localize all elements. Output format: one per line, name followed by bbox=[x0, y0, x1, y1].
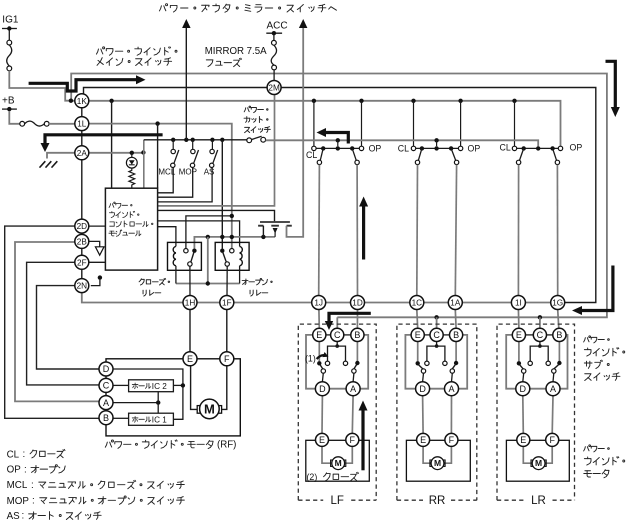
svg-text:+B: +B bbox=[2, 96, 15, 107]
wire C to hall IC2 bbox=[113, 384, 129, 386]
wire close relay to pin bbox=[189, 266, 191, 295]
coil return bus y283.5 bbox=[176, 283, 240, 285]
svg-text:M: M bbox=[204, 401, 215, 416]
svg-text:E: E bbox=[420, 435, 426, 445]
wire 1A to RR B bbox=[454, 310, 457, 329]
node MCL bbox=[171, 138, 175, 142]
svg-text:1H: 1H bbox=[185, 299, 196, 308]
flow arrow into 1G bbox=[582, 266, 613, 311]
RR B contact bbox=[455, 342, 457, 361]
wire 2D-2B bbox=[81, 233, 83, 234]
svg-text:IC 2: IC 2 bbox=[152, 382, 167, 391]
transistor Q1 (p-ch MOSFET) gate bar bbox=[260, 221, 290, 223]
node 1L rail end bbox=[230, 235, 234, 239]
wire 2F-2N bbox=[81, 269, 83, 278]
LR sub-switch frame bbox=[506, 335, 567, 389]
svg-text:RR: RR bbox=[429, 495, 446, 507]
connector pin 1H bbox=[183, 296, 197, 310]
wire module to relay1 coil bbox=[158, 227, 176, 247]
svg-text:F: F bbox=[549, 435, 555, 445]
ACC terminal bbox=[266, 32, 282, 34]
motor pin B bbox=[99, 411, 113, 425]
wire switch bus y139.8 bbox=[144, 139, 247, 141]
wire LF armature OP to 1D bbox=[356, 165, 358, 296]
wire bus140 to relay2 NO contact bbox=[221, 140, 223, 249]
RR pin D to motor bbox=[422, 396, 425, 434]
svg-text:A: A bbox=[448, 384, 454, 394]
wire B to hall IC1 bbox=[113, 417, 129, 419]
svg-text:E: E bbox=[316, 330, 322, 340]
connector pin 2D bbox=[75, 219, 89, 233]
+B terminal dot bbox=[7, 107, 11, 111]
wire MOP to module bbox=[158, 168, 193, 198]
switch AS bbox=[210, 149, 214, 153]
wire 2B to motor pin A (left bus) bbox=[15, 242, 99, 401]
wire module to relay1 NC contact bbox=[186, 216, 232, 249]
LF E contact bbox=[318, 342, 320, 362]
svg-text:MCL: MCL bbox=[7, 480, 28, 491]
wire 1L output bus to relay NC contacts bbox=[89, 124, 232, 249]
svg-text:M: M bbox=[434, 458, 441, 468]
LF pin A to motor bbox=[351, 396, 354, 434]
svg-text::: : bbox=[24, 464, 27, 475]
svg-text:F: F bbox=[224, 354, 230, 364]
RR motor leads bbox=[423, 446, 430, 463]
wire IC supply vertical bbox=[157, 392, 159, 414]
svg-text:E: E bbox=[187, 354, 193, 364]
connector pin 1L bbox=[75, 117, 89, 131]
wire 1G to LR B bbox=[558, 310, 559, 329]
close relay contacts bbox=[184, 249, 188, 253]
open relay coil bbox=[240, 246, 243, 265]
label close relay bbox=[139, 278, 170, 285]
LR armatures bbox=[520, 365, 524, 369]
svg-text:2B: 2B bbox=[77, 237, 88, 246]
svg-text:CL: CL bbox=[306, 150, 317, 160]
dashed box LR bbox=[497, 324, 575, 500]
node CL1 feed bbox=[312, 99, 316, 103]
svg-text:2A: 2A bbox=[77, 149, 88, 158]
wire 1F to motor F bbox=[226, 310, 228, 352]
svg-text:OP: OP bbox=[7, 465, 22, 476]
connector pin 2N bbox=[75, 279, 89, 293]
LR pin D to motor bbox=[522, 396, 525, 434]
svg-text:MOP: MOP bbox=[7, 496, 30, 507]
svg-text:F: F bbox=[449, 435, 455, 445]
svg-text:F: F bbox=[350, 435, 356, 445]
wire 2F to motor pin C (left bus) bbox=[27, 262, 99, 385]
wire ACC loop bus (top y73.5, right side, C-pin feed y317.3) bbox=[71, 74, 607, 318]
svg-text:LF: LF bbox=[330, 495, 343, 507]
IG1 terminal dot bbox=[7, 26, 11, 30]
node MOP bbox=[191, 138, 195, 142]
svg-text:AS: AS bbox=[204, 167, 215, 176]
node CL3 feed bbox=[512, 99, 516, 103]
wire 1K output bus y100.8 bbox=[71, 101, 561, 146]
node group2 center feed bbox=[434, 138, 438, 142]
node OP2 feed bbox=[458, 99, 462, 103]
node OP1 feed bbox=[359, 99, 363, 103]
node module switch-bus feed bbox=[141, 150, 145, 154]
svg-text:B: B bbox=[453, 330, 459, 340]
ground bbox=[40, 161, 46, 167]
open relay contacts bbox=[230, 249, 234, 253]
label to power outer mirror switch bbox=[159, 4, 336, 13]
svg-text:OP: OP bbox=[570, 143, 583, 153]
LR E contact bbox=[518, 342, 520, 362]
LF armatures bbox=[320, 365, 323, 369]
svg-text:C: C bbox=[103, 381, 110, 391]
main switch rocker LR bbox=[517, 147, 559, 149]
node between-relay link top bbox=[206, 235, 210, 239]
connector pin 1G bbox=[551, 296, 565, 310]
wire to power outer mirror switch (up arrow) bbox=[185, 27, 187, 140]
svg-text:IC 1: IC 1 bbox=[152, 415, 167, 424]
LF motor leads bbox=[322, 446, 331, 463]
svg-text:OP: OP bbox=[369, 143, 382, 153]
wire 1H to motor E bbox=[189, 310, 191, 352]
+B terminal bar bbox=[2, 108, 17, 110]
LF B contact bbox=[356, 342, 358, 361]
RR pins bbox=[411, 328, 424, 341]
svg-text:A: A bbox=[103, 398, 109, 408]
wire IG1 to node at 1K bbox=[9, 71, 71, 101]
open relay box bbox=[215, 242, 249, 270]
svg-text:MIRROR 7.5A: MIRROR 7.5A bbox=[205, 46, 267, 57]
wire 2B-2F bbox=[81, 248, 83, 255]
node 1L to module bbox=[155, 121, 159, 125]
LF motor box bbox=[306, 440, 370, 481]
node LR C feed bbox=[538, 315, 542, 319]
svg-text:E: E bbox=[415, 330, 421, 340]
flow arrow right side down bbox=[606, 61, 616, 107]
svg-text:B: B bbox=[556, 330, 562, 340]
close relay coil return bbox=[175, 266, 177, 284]
wire open relay to pin bbox=[226, 266, 228, 295]
motor pin E bbox=[183, 352, 197, 366]
LR motor box bbox=[506, 440, 569, 481]
wire LR armature OP to 1G bbox=[556, 165, 558, 296]
svg-text:E: E bbox=[520, 435, 526, 445]
node relay2 coil-contact feed bbox=[220, 138, 224, 142]
LR pins bbox=[512, 328, 525, 341]
svg-text:1K: 1K bbox=[77, 97, 88, 106]
connector pin 2A bbox=[75, 146, 89, 160]
svg-text:E: E bbox=[516, 330, 522, 340]
Q1 body arrow bbox=[273, 228, 278, 234]
wire LF armature CL to 1J bbox=[318, 165, 321, 296]
power cut switch bbox=[247, 138, 252, 143]
dashed box LF bbox=[298, 324, 376, 500]
flow arrow up 1D column bbox=[362, 206, 365, 260]
svg-text:C: C bbox=[537, 330, 544, 340]
svg-text:2F: 2F bbox=[77, 258, 87, 267]
wire module to 2M (ACC sense) bbox=[158, 95, 275, 206]
Q1 drain lead to mirror-switch arrow bbox=[287, 27, 304, 237]
wire E to motor M bbox=[191, 366, 198, 410]
wire LR armature CL to 1I bbox=[517, 165, 519, 296]
node mirror-switch branch bbox=[184, 138, 188, 142]
svg-text:1J: 1J bbox=[314, 299, 323, 308]
main switch rocker RR bbox=[416, 147, 459, 149]
LED D1 bbox=[131, 153, 133, 158]
wire module to MOSFET gate bbox=[158, 210, 275, 221]
wire module to relay2 coil bbox=[158, 221, 240, 247]
RR pin A to motor bbox=[450, 396, 452, 434]
Q1 channel stubs bbox=[258, 225, 263, 227]
wire 2D to motor pin B (left bus) bbox=[5, 226, 99, 418]
motor pin D bbox=[99, 362, 113, 376]
2B entry arrow symbol bbox=[89, 241, 100, 246]
node LED branch bbox=[130, 151, 134, 155]
label power window sub switch bbox=[584, 336, 610, 343]
flow arrow main switch feed (top left) bbox=[29, 80, 137, 91]
node CL2 feed bbox=[411, 99, 415, 103]
svg-text:A: A bbox=[350, 384, 356, 394]
flow arrow up LF motor bbox=[361, 410, 364, 471]
wire 2N to pin rail bbox=[82, 293, 190, 303]
LF pin D to motor bbox=[321, 396, 323, 434]
RF power window motor box bbox=[106, 359, 240, 436]
node AS bbox=[210, 138, 214, 142]
svg-text:B: B bbox=[103, 413, 109, 423]
wire 1D to LF B bbox=[356, 310, 358, 329]
wire module feed from 1K bus bbox=[111, 101, 113, 188]
label power cut switch bbox=[244, 106, 268, 113]
wire 1C to RR E bbox=[416, 310, 419, 329]
RR E contact bbox=[417, 342, 419, 362]
svg-text:AS: AS bbox=[7, 511, 21, 521]
svg-text:B: B bbox=[354, 330, 360, 340]
svg-text:OP: OP bbox=[468, 143, 481, 153]
LR motor M bbox=[531, 460, 534, 466]
wire 2A-2D bbox=[81, 160, 83, 219]
LF pins bbox=[313, 328, 326, 341]
resistor R1 bbox=[129, 168, 135, 188]
switch MCL bbox=[171, 149, 175, 153]
label open relay bbox=[242, 279, 272, 285]
LR B contact bbox=[558, 342, 560, 361]
wire RR armature CL to 1C bbox=[416, 165, 419, 296]
wire power-cut output bus y140.3 to group3 bbox=[266, 140, 539, 146]
node coil return bbox=[206, 281, 210, 285]
motor pin F bbox=[220, 352, 234, 366]
connector pin 2M bbox=[267, 81, 281, 95]
LR C contact bracket bbox=[539, 342, 541, 347]
LF sub-switch frame bbox=[306, 335, 368, 389]
LR pin A to motor bbox=[551, 396, 554, 434]
wire 1I to LR E bbox=[517, 310, 520, 329]
wire 2N to motor pin D (left bus) bbox=[37, 286, 100, 369]
motor pin A bbox=[99, 396, 113, 410]
wire F to motor M bbox=[222, 366, 227, 410]
close relay box bbox=[168, 242, 202, 270]
fuse MIRROR 7.5A bbox=[273, 35, 275, 41]
svg-text:1C: 1C bbox=[412, 299, 423, 308]
svg-text:E: E bbox=[319, 435, 325, 445]
LF C contact bracket bbox=[336, 342, 338, 347]
main switch rocker LF bbox=[316, 147, 359, 149]
svg-text::: : bbox=[31, 480, 34, 491]
wire fuse to 1L bbox=[49, 123, 75, 125]
svg-text:1G: 1G bbox=[552, 299, 563, 308]
svg-text:1D: 1D bbox=[352, 299, 363, 308]
node group1 center feed bbox=[336, 138, 340, 142]
svg-text:A: A bbox=[550, 384, 556, 394]
flow arrow to ground bbox=[45, 135, 163, 145]
wire D to IC outputs bbox=[113, 369, 183, 419]
RR C contact bracket bbox=[436, 342, 438, 347]
svg-text:CL: CL bbox=[398, 143, 409, 153]
connector pin 1J bbox=[312, 296, 326, 310]
svg-text:C: C bbox=[334, 330, 341, 340]
label power window main switch bbox=[96, 47, 177, 55]
power window control module U1 bbox=[105, 188, 157, 270]
svg-text:M: M bbox=[335, 458, 342, 468]
IG1 terminal bar bbox=[2, 28, 17, 30]
close relay coil bbox=[173, 246, 176, 265]
svg-text:D: D bbox=[103, 364, 110, 374]
svg-text:M: M bbox=[535, 458, 542, 468]
wire switch bus left end into module bbox=[143, 140, 145, 188]
svg-text:CL: CL bbox=[7, 449, 20, 460]
flow arrow into group1 (close) bbox=[326, 133, 349, 144]
svg-text:D: D bbox=[319, 384, 326, 394]
dashed box RR bbox=[397, 324, 477, 500]
wire 2A to LED/resistor and module bbox=[89, 152, 144, 154]
wire 1J to LF E bbox=[318, 310, 320, 329]
open relay coil return bbox=[239, 266, 241, 284]
+B fusible link bbox=[9, 111, 19, 124]
label power window motor (rear) bbox=[584, 445, 610, 452]
wire 2N stub bbox=[91, 280, 100, 286]
svg-text:2D: 2D bbox=[77, 222, 88, 231]
wire LF C pin drop bbox=[336, 317, 338, 328]
connector pin 2F bbox=[75, 255, 89, 269]
hall IC 1 box bbox=[129, 413, 174, 425]
label power window motor (RF) bbox=[105, 440, 213, 449]
pin rail 1H..1G bbox=[190, 302, 558, 304]
wire 2F into module bbox=[89, 261, 106, 263]
wire A to IC supply bbox=[113, 402, 158, 404]
svg-text:(2): (2) bbox=[307, 472, 318, 482]
svg-text::: : bbox=[22, 511, 25, 521]
svg-text:CL: CL bbox=[500, 143, 511, 153]
svg-text:(RF): (RF) bbox=[217, 440, 236, 451]
connector pin 1C bbox=[410, 296, 424, 310]
connector pin 1F bbox=[220, 296, 234, 310]
LR motor leads bbox=[523, 446, 531, 463]
motor pin C bbox=[99, 378, 113, 392]
hall IC 2 box bbox=[129, 380, 174, 392]
connector pin 1A bbox=[448, 296, 462, 310]
wire between relays to coil bus bbox=[207, 237, 209, 284]
svg-text:D: D bbox=[419, 384, 426, 394]
svg-text:1F: 1F bbox=[222, 299, 232, 308]
RR armatures bbox=[419, 365, 424, 369]
flow arrow into LF switch bbox=[329, 313, 371, 321]
wire AS to module bbox=[158, 168, 213, 202]
RR motor M bbox=[430, 460, 433, 466]
node 1K module feed bbox=[69, 99, 73, 103]
svg-text:2M: 2M bbox=[268, 84, 280, 93]
connector pin 1K bbox=[75, 94, 89, 108]
wire MCL to module bbox=[158, 168, 174, 193]
connector pin 2B bbox=[75, 234, 89, 248]
wire 2D into module bbox=[89, 225, 106, 227]
svg-text:1I: 1I bbox=[515, 299, 522, 308]
svg-text:LR: LR bbox=[531, 495, 546, 507]
switch MOP bbox=[191, 149, 195, 153]
IG1 circuit breaker bbox=[8, 30, 10, 41]
svg-text:ACC: ACC bbox=[267, 20, 288, 31]
connector pin 1D bbox=[351, 296, 365, 310]
label fuse kana bbox=[206, 58, 241, 66]
wire 2M bus to 1G bbox=[84, 88, 596, 303]
svg-text:MOP: MOP bbox=[179, 167, 197, 176]
node relay contact rail bbox=[230, 214, 234, 218]
svg-text:MCL: MCL bbox=[158, 167, 175, 176]
svg-text:(1): (1) bbox=[305, 354, 316, 364]
svg-text:C: C bbox=[433, 330, 440, 340]
wire IC2 output bbox=[173, 384, 183, 386]
svg-text::: : bbox=[32, 496, 35, 507]
connector pin 1I bbox=[511, 296, 525, 310]
svg-text:D: D bbox=[520, 384, 527, 394]
node MOSFET source bbox=[261, 235, 265, 239]
LF motor M bbox=[331, 460, 334, 466]
flow arrow (1) small bbox=[317, 355, 326, 359]
node RR C feed bbox=[434, 315, 438, 319]
node relay2 NO wire crossing bbox=[220, 235, 224, 239]
svg-text:1L: 1L bbox=[77, 120, 87, 129]
motor M (RF) bbox=[197, 406, 201, 414]
svg-text:2N: 2N bbox=[77, 282, 88, 291]
Q1 source lead bbox=[262, 226, 264, 237]
wire 1K-1L bbox=[81, 108, 83, 117]
wire RR armature OP to 1A bbox=[455, 165, 456, 296]
wire 1L-2A bbox=[81, 131, 83, 146]
wire 2A to ground bbox=[47, 153, 75, 159]
svg-text::: : bbox=[23, 449, 26, 460]
svg-text:IG1: IG1 bbox=[2, 14, 19, 25]
wire relay supply bus y236.9 bbox=[194, 237, 275, 249]
RR motor box bbox=[406, 440, 470, 481]
svg-text:1A: 1A bbox=[450, 299, 461, 308]
RR sub-switch frame bbox=[405, 335, 467, 389]
